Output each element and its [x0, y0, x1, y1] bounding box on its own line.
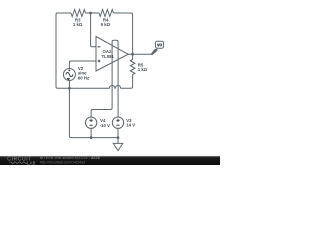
- wire V3 bottom to ground: [117, 128, 119, 143]
- V2 plus mark: [69, 70, 71, 72]
- wire top left horizontal: [58, 12, 72, 14]
- wire left rail: [56, 13, 58, 88]
- bottom bar: [0, 156, 220, 165]
- junction bottom rail V2: [90, 136, 93, 139]
- component marks (dark): [66, 47, 120, 125]
- svg-text:LAB: LAB: [27, 160, 36, 165]
- svg-text:1 kΩ: 1 kΩ: [73, 22, 83, 27]
- svg-text:1 kΩ: 1 kΩ: [138, 67, 148, 72]
- source V3 circle: [112, 117, 123, 128]
- wire between R3 and node A: [86, 12, 100, 14]
- wire flag tail diagonal: [151, 49, 155, 54]
- wire R5 bottom horizontal with hops: [58, 85, 132, 88]
- V3 plus mark: [116, 119, 119, 122]
- svg-text:TL081: TL081: [102, 54, 115, 59]
- ground: [113, 143, 123, 150]
- wire V2 bottom column: [69, 81, 71, 138]
- V2 minus mark: [67, 78, 70, 79]
- junction V2 column / R5 wire: [68, 87, 71, 90]
- V4 minus mark: [90, 124, 93, 126]
- wire inverting input from node A: [91, 13, 96, 47]
- resistor R3: [71, 10, 86, 17]
- wire op-amp V+ supply staple: [112, 40, 118, 117]
- V3 minus mark: [116, 124, 119, 126]
- svg-text:14 V: 14 V: [126, 123, 135, 128]
- op-amp minus mark: [98, 46, 101, 48]
- resistor R4: [99, 10, 113, 17]
- junction dots: [68, 12, 134, 139]
- vo glyphs: [157, 44, 162, 47]
- op-amp plus mark: [98, 60, 101, 63]
- svg-text:http://circuitlab.com/c/4z54a2: http://circuitlab.com/c/4z54a2: [40, 160, 86, 164]
- CircuitLab logo: [7, 157, 35, 166]
- wire V4 bottom: [90, 128, 92, 137]
- wire op-amp output: [128, 53, 151, 55]
- wire R4 right to corner: [113, 13, 132, 54]
- wire V4 supply route: [91, 108, 112, 117]
- watermark text: [40, 156, 100, 164]
- wire bottom rail: [71, 137, 118, 139]
- node A junction dot: [89, 12, 92, 15]
- V4 plus mark: [90, 119, 93, 122]
- source V2 circle: [63, 69, 75, 81]
- svg-text:-10 V: -10 V: [100, 123, 110, 128]
- node vo flag box: [151, 49, 157, 55]
- svg-text:60 Hz: 60 Hz: [78, 75, 89, 80]
- output junction dot: [131, 53, 134, 56]
- op-amp OA2 triangle: [96, 37, 128, 72]
- svg-text:9 kΩ: 9 kΩ: [101, 22, 111, 27]
- V2 sine wave: [66, 72, 73, 76]
- resistor R5: [130, 54, 135, 88]
- source V4 circle: [85, 117, 96, 128]
- wire noninverting input: [69, 61, 96, 69]
- labels: [73, 17, 148, 128]
- junction bottom rail V3/ground: [117, 136, 120, 139]
